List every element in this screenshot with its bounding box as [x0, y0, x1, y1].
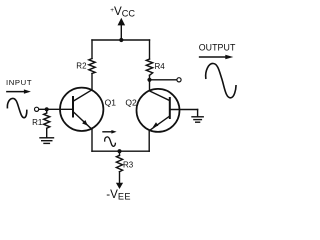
svg-text:INPUT: INPUT: [6, 78, 32, 87]
svg-text:R3: R3: [123, 161, 134, 170]
svg-text:OUTPUT: OUTPUT: [199, 42, 236, 52]
svg-text:Q2: Q2: [125, 98, 137, 108]
svg-text:R1: R1: [32, 118, 43, 127]
svg-text:R4: R4: [155, 62, 166, 71]
svg-text:R2: R2: [76, 62, 87, 71]
svg-text:Q1: Q1: [105, 98, 117, 108]
